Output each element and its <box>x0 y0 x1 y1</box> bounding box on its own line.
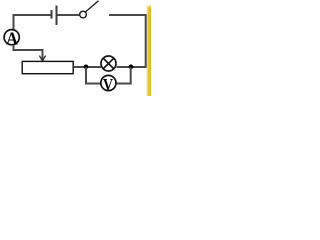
battery B1 negative plate (short) <box>51 10 53 19</box>
highlight bar (yellow) <box>146 0 151 96</box>
wire ammeter to slider arrow <box>14 45 43 60</box>
wire voltmeter right branch <box>117 67 131 84</box>
slider arrowhead <box>39 56 45 61</box>
svg-text:A: A <box>6 28 18 48</box>
wire battery to switch <box>58 14 80 16</box>
wire switch to right corner and down <box>109 15 146 67</box>
switch S1 lever (open) <box>86 1 99 12</box>
node right junction <box>129 65 134 70</box>
node left junction <box>84 65 89 70</box>
lamp L1 cross <box>103 58 114 69</box>
wire rheostat to lamp <box>74 66 101 68</box>
lamp L1 body <box>101 56 116 71</box>
wire voltmeter left branch <box>86 67 101 84</box>
voltmeter V1 label <box>103 75 114 94</box>
svg-text:V: V <box>103 75 114 94</box>
battery B1 positive plate (long) <box>56 6 58 26</box>
rheostat R1 body <box>22 61 73 73</box>
voltmeter V1 body <box>101 75 116 90</box>
ammeter A1 body <box>4 30 19 45</box>
wire top-left (corner to battery) <box>14 15 51 30</box>
switch S1 pivot <box>80 11 87 18</box>
ammeter A1 label <box>6 28 18 48</box>
